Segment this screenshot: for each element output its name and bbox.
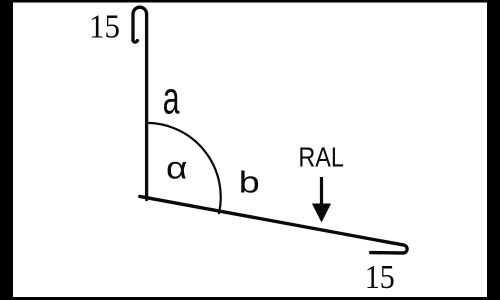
frame bar top [0, 0, 500, 3]
angle arc alpha [147, 123, 221, 213]
svg-text:α: α [166, 150, 188, 186]
frame bar left [0, 0, 13, 300]
arrow shaft (RAL pointer) [320, 177, 323, 205]
diagonal profile line with right end hem fold [140, 196, 407, 253]
svg-text:b: b [239, 164, 260, 199]
frame bar right [487, 0, 500, 300]
svg-text:RAL: RAL [298, 142, 344, 173]
svg-text:15: 15 [89, 8, 120, 45]
vertical profile line with top hem fold [133, 7, 147, 199]
arrow head [312, 204, 331, 223]
svg-text:15: 15 [365, 259, 395, 296]
frame bar bottom [0, 297, 500, 300]
svg-text:a: a [163, 72, 180, 123]
